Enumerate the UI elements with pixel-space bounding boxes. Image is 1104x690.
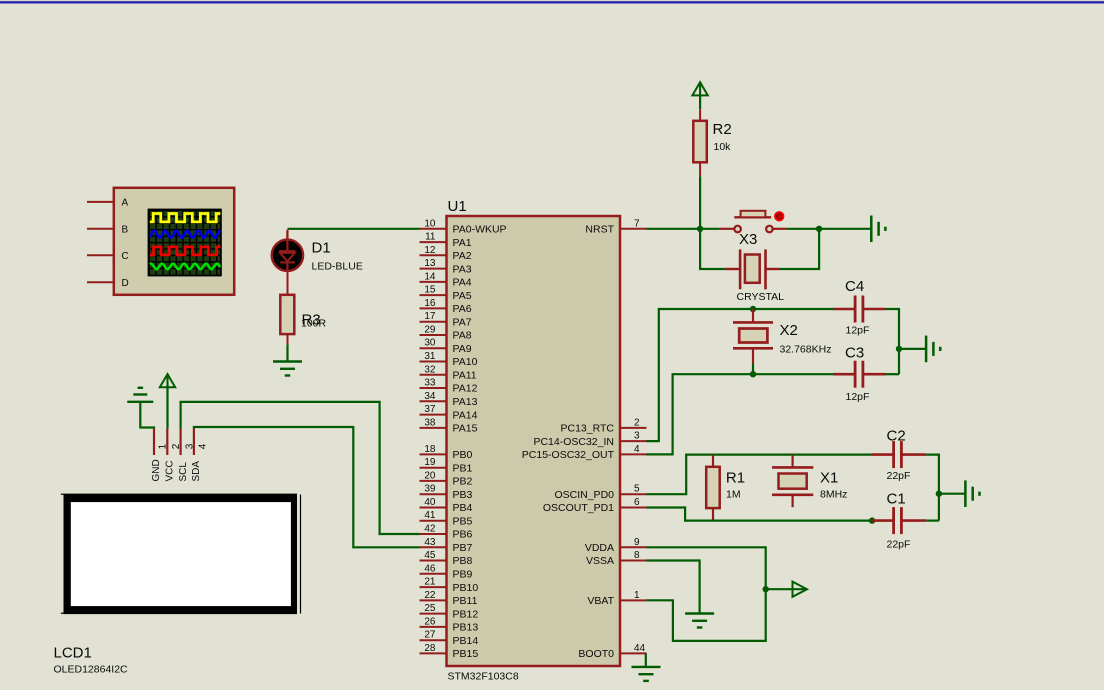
svg-text:13: 13 (424, 258, 436, 269)
svg-text:BOOT0: BOOT0 (578, 648, 614, 660)
svg-text:LED-BLUE: LED-BLUE (312, 261, 363, 273)
node C1 junction (869, 517, 875, 523)
svg-text:SCL: SCL (178, 462, 189, 482)
svg-text:8MHz: 8MHz (820, 489, 847, 501)
svg-text:PA10: PA10 (453, 356, 478, 368)
crystal X2 (733, 309, 773, 364)
wire X2 bottom to rail (752, 364, 754, 375)
wire to ground (8M) (939, 493, 966, 495)
svg-text:OSCOUT_PD1: OSCOUT_PD1 (543, 502, 614, 514)
svg-text:100R: 100R (301, 318, 327, 330)
svg-text:X3: X3 (739, 231, 757, 248)
svg-text:C3: C3 (845, 345, 864, 362)
LCD1 OLED display body (61, 494, 301, 614)
U1 right pin stubs (620, 229, 647, 654)
svg-text:33: 33 (424, 378, 436, 389)
capacitor C4 (833, 296, 886, 323)
svg-text:PA12: PA12 (453, 383, 478, 395)
svg-text:19: 19 (424, 457, 436, 468)
wire VDDA to node (647, 547, 766, 589)
wire PC15 to bottom rail (647, 374, 834, 454)
resistor R1 (706, 455, 720, 521)
svg-text:PA0-WKUP: PA0-WKUP (453, 224, 507, 236)
svg-text:14: 14 (424, 271, 436, 282)
svg-text:PA4: PA4 (453, 277, 472, 289)
svg-text:U1: U1 (448, 198, 467, 215)
svg-text:22pF: 22pF (887, 539, 911, 551)
svg-text:CRYSTAL: CRYSTAL (737, 291, 785, 303)
svg-text:PB9: PB9 (453, 569, 473, 581)
svg-text:PB0: PB0 (453, 449, 473, 461)
power symbol (R2 top, up arrow) (692, 82, 707, 97)
U1 left pin stubs (420, 229, 447, 654)
wire R2 to NRST node (699, 176, 701, 228)
svg-text:5: 5 (634, 484, 640, 495)
svg-text:PB3: PB3 (453, 489, 473, 501)
LCD1 pin 2 (VCC) (166, 429, 168, 455)
resistor R2 (693, 109, 707, 176)
svg-text:8: 8 (634, 550, 640, 561)
svg-text:PC13_RTC: PC13_RTC (561, 423, 615, 435)
svg-text:26: 26 (424, 616, 436, 627)
svg-text:PB15: PB15 (453, 648, 479, 660)
ground (R3) (273, 362, 302, 376)
node VDD junction (763, 586, 769, 592)
push button X3 (719, 211, 786, 233)
wire power to R2 (699, 95, 701, 109)
svg-text:PB7: PB7 (453, 542, 473, 554)
node X2 top junction (750, 306, 756, 312)
oscilloscope waveform channel D (green sine) (150, 264, 220, 270)
svg-text:PA14: PA14 (453, 409, 478, 421)
wire C4 to right rail (886, 309, 899, 374)
wire PC14 to top rail (647, 309, 834, 441)
ground (reset, horizontal) (871, 216, 885, 243)
svg-text:27: 27 (424, 630, 436, 641)
svg-text:VCC: VCC (165, 460, 176, 481)
svg-text:C1: C1 (887, 491, 906, 508)
svg-text:25: 25 (424, 603, 436, 614)
svg-text:PA9: PA9 (453, 343, 472, 355)
svg-text:42: 42 (424, 524, 436, 535)
svg-text:R2: R2 (713, 121, 732, 138)
svg-text:22pF: 22pF (887, 470, 911, 482)
svg-text:34: 34 (424, 391, 436, 402)
svg-text:4: 4 (634, 444, 640, 455)
microcontroller U1 body (447, 216, 621, 666)
svg-text:R1: R1 (726, 470, 745, 487)
ground (BOOT0) (632, 667, 661, 681)
svg-text:18: 18 (424, 444, 436, 455)
svg-text:1M: 1M (726, 489, 741, 501)
crystal X3 (725, 249, 780, 289)
svg-text:21: 21 (424, 577, 436, 588)
U1 right pin numbers (634, 218, 646, 654)
svg-text:12: 12 (424, 245, 436, 256)
svg-text:30: 30 (424, 338, 436, 349)
svg-text:PB1: PB1 (453, 462, 473, 474)
svg-text:PA6: PA6 (453, 303, 472, 315)
svg-text:PB10: PB10 (453, 582, 479, 594)
svg-text:C: C (122, 251, 129, 262)
svg-text:39: 39 (424, 484, 436, 495)
svg-text:PA7: PA7 (453, 316, 472, 328)
svg-text:X2: X2 (780, 322, 798, 339)
svg-text:PA3: PA3 (453, 263, 472, 275)
svg-text:VBAT: VBAT (587, 595, 614, 607)
top window border (0, 0, 1104, 1)
svg-text:6: 6 (634, 497, 640, 508)
oscilloscope waveform channel B (blue sine) (150, 231, 220, 238)
svg-text:9: 9 (634, 537, 640, 548)
wire C1 to right rail (926, 519, 939, 521)
svg-text:38: 38 (424, 417, 436, 428)
svg-text:X1: X1 (820, 470, 838, 487)
svg-text:PA8: PA8 (453, 330, 472, 342)
svg-text:D: D (122, 278, 129, 289)
svg-text:PB2: PB2 (453, 476, 473, 488)
wire SCL to PB6 (181, 402, 420, 534)
oscilloscope channel labels (122, 198, 129, 289)
wire button to ground (787, 228, 872, 230)
capacitor C2 (871, 441, 926, 468)
svg-text:NRST: NRST (585, 224, 614, 236)
svg-text:PA1: PA1 (453, 237, 472, 249)
node button-right junction (816, 226, 822, 232)
svg-text:10: 10 (424, 218, 436, 229)
wire NRST (647, 228, 720, 230)
svg-text:PA2: PA2 (453, 250, 472, 262)
svg-text:32: 32 (424, 364, 436, 375)
capacitor C1 (872, 507, 926, 534)
wire VBAT to node (647, 589, 766, 641)
svg-text:37: 37 (424, 404, 436, 415)
svg-text:PA11: PA11 (453, 370, 477, 382)
svg-text:GND: GND (151, 459, 162, 481)
svg-text:44: 44 (634, 643, 646, 654)
capacitor C3 (833, 361, 886, 388)
U1 right pin names (522, 224, 615, 661)
svg-text:PA5: PA5 (453, 290, 472, 302)
wire C3 to right rail (886, 373, 899, 375)
crystal X1 (772, 455, 813, 508)
svg-text:LCD1: LCD1 (54, 645, 92, 662)
svg-text:4: 4 (198, 443, 209, 449)
resistor R3 (280, 270, 294, 345)
svg-text:43: 43 (424, 537, 436, 548)
svg-text:40: 40 (424, 497, 436, 508)
node NRST junction (697, 226, 703, 232)
wire NRST node down to crystal X3 (700, 229, 725, 269)
svg-text:PA15: PA15 (453, 423, 478, 435)
svg-text:D1: D1 (312, 240, 331, 257)
svg-text:PB11: PB11 (453, 595, 478, 607)
svg-text:PB12: PB12 (453, 608, 479, 620)
node X2 bottom junction (750, 371, 756, 377)
wire LCD1 GND to ground (140, 402, 154, 429)
svg-text:17: 17 (424, 311, 436, 322)
button interactive red dot (774, 211, 784, 221)
wire C2 to right rail (926, 455, 939, 521)
wire to ground (32k) (899, 348, 926, 350)
power symbol (right arrow) (793, 582, 808, 597)
svg-text:28: 28 (424, 643, 436, 654)
U1 left pin numbers (424, 218, 436, 654)
svg-text:3: 3 (634, 431, 640, 442)
svg-text:20: 20 (424, 470, 436, 481)
wire SDA to PB7 (194, 427, 420, 547)
wire LCD1 VCC to power (166, 385, 168, 429)
wire VSSA to ground (647, 561, 700, 614)
oscilloscope pin B (87, 228, 115, 230)
svg-text:16: 16 (424, 298, 436, 309)
LCD1 pin 4 (SDA) (193, 429, 195, 455)
svg-text:C4: C4 (845, 278, 864, 295)
svg-text:PB6: PB6 (453, 529, 473, 541)
oscilloscope pin D (87, 281, 115, 283)
svg-text:OLED12864I2C: OLED12864I2C (54, 664, 129, 676)
node ground tap (8M) (936, 491, 942, 497)
oscilloscope waveform channel C (red square) (150, 247, 221, 255)
svg-text:OSCIN_PD0: OSCIN_PD0 (554, 489, 614, 501)
svg-text:VSSA: VSSA (586, 555, 614, 567)
svg-text:29: 29 (424, 325, 436, 336)
ground (8M network, horizontal) (965, 480, 979, 507)
svg-text:32.768KHz: 32.768KHz (780, 344, 832, 356)
LCD1 pin 3 (SCL) (180, 429, 182, 455)
svg-text:22: 22 (424, 590, 436, 601)
svg-text:PC14-OSC32_IN: PC14-OSC32_IN (533, 436, 614, 448)
svg-text:C2: C2 (887, 428, 906, 445)
svg-text:1: 1 (634, 590, 640, 601)
oscilloscope pin A (87, 201, 115, 203)
wire R3 to ground (286, 344, 288, 361)
svg-text:2: 2 (634, 417, 640, 428)
ground (32k network, horizontal) (926, 336, 940, 363)
power symbol VCC (up arrow) (160, 374, 175, 389)
svg-text:PB4: PB4 (453, 502, 473, 514)
wire BOOT0 to ground (645, 653, 647, 667)
wire crystal X3 right leg (780, 229, 819, 269)
oscilloscope screen (148, 209, 222, 277)
svg-text:7: 7 (634, 218, 640, 229)
svg-text:12pF: 12pF (846, 391, 870, 403)
wire OSCIN to top rail (647, 455, 871, 495)
svg-text:41: 41 (424, 510, 436, 521)
wire OSCOUT to bottom rail (647, 508, 873, 521)
svg-text:PB8: PB8 (453, 555, 473, 567)
svg-text:VDDA: VDDA (585, 542, 614, 554)
svg-text:46: 46 (424, 563, 436, 574)
ground (VSSA) (685, 614, 714, 628)
svg-text:PB14: PB14 (453, 635, 479, 647)
svg-text:B: B (122, 224, 129, 235)
svg-text:PB5: PB5 (453, 515, 473, 527)
LED D1 (272, 230, 303, 271)
svg-text:PA13: PA13 (453, 396, 478, 408)
node ground tap (32k) (896, 346, 902, 352)
svg-text:11: 11 (425, 232, 436, 243)
oscilloscope pin C (87, 254, 115, 256)
svg-text:31: 31 (424, 351, 436, 362)
oscilloscope (114, 188, 234, 295)
LCD1 pin 1 (GND) (153, 429, 155, 455)
svg-text:10k: 10k (714, 141, 732, 153)
wire PA0 to LED (288, 228, 420, 230)
oscilloscope waveform channel A (yellow square) (150, 214, 221, 222)
svg-text:12pF: 12pF (846, 325, 870, 337)
svg-text:A: A (122, 198, 129, 209)
svg-text:SDA: SDA (191, 461, 202, 482)
svg-text:15: 15 (424, 285, 436, 296)
svg-text:STM32F103C8: STM32F103C8 (448, 671, 519, 683)
svg-text:45: 45 (424, 550, 436, 561)
wire node to power arrow (766, 588, 806, 590)
U1 left pin names (453, 224, 507, 661)
svg-text:PC15-OSC32_OUT: PC15-OSC32_OUT (522, 449, 615, 461)
ground (LCD1 GND, inverted) (127, 388, 153, 402)
svg-text:PB13: PB13 (453, 622, 479, 634)
